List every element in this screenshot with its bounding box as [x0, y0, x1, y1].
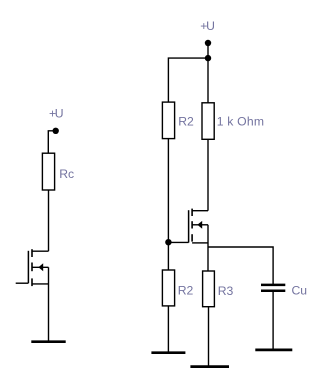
svg-text:+U: +U: [49, 106, 64, 120]
transistor Q2: [168, 209, 208, 243]
transistor Q1: [16, 249, 49, 286]
wire: [167, 306, 169, 353]
svg-text:R2: R2: [178, 114, 194, 128]
resistor R2 (lower): [162, 270, 174, 306]
wire: [207, 43, 209, 103]
wire: [208, 247, 273, 284]
wire: [208, 307, 210, 367]
node +U terminal (left): [53, 128, 59, 134]
resistor R2 (upper): [162, 102, 174, 139]
ground: [31, 340, 65, 343]
node +U terminal (right): [205, 40, 211, 46]
wire: [48, 190, 50, 251]
svg-text:R2: R2: [178, 284, 194, 298]
ground: [255, 349, 292, 352]
ground: [190, 365, 229, 368]
ground: [151, 351, 185, 354]
wire: [207, 225, 209, 271]
junction supply node: [205, 55, 211, 61]
node gate junction: [165, 239, 171, 245]
wire: [48, 267, 50, 341]
resistor R1 value 1 k Ohm: [202, 103, 214, 140]
svg-text:+U: +U: [200, 19, 215, 33]
wire: [207, 139, 209, 210]
svg-text:R3: R3: [218, 284, 234, 298]
capacitor Cu: [261, 285, 285, 291]
wire: [272, 292, 274, 350]
resistor R3: [203, 271, 215, 307]
svg-text:Cu: Cu: [292, 284, 308, 298]
wire: [168, 58, 208, 102]
svg-text:Rc: Rc: [59, 167, 74, 181]
svg-text:1 k Ohm: 1 k Ohm: [217, 115, 264, 129]
wire: [48, 131, 55, 153]
resistor Rc: [42, 153, 54, 190]
wire: [167, 139, 169, 270]
